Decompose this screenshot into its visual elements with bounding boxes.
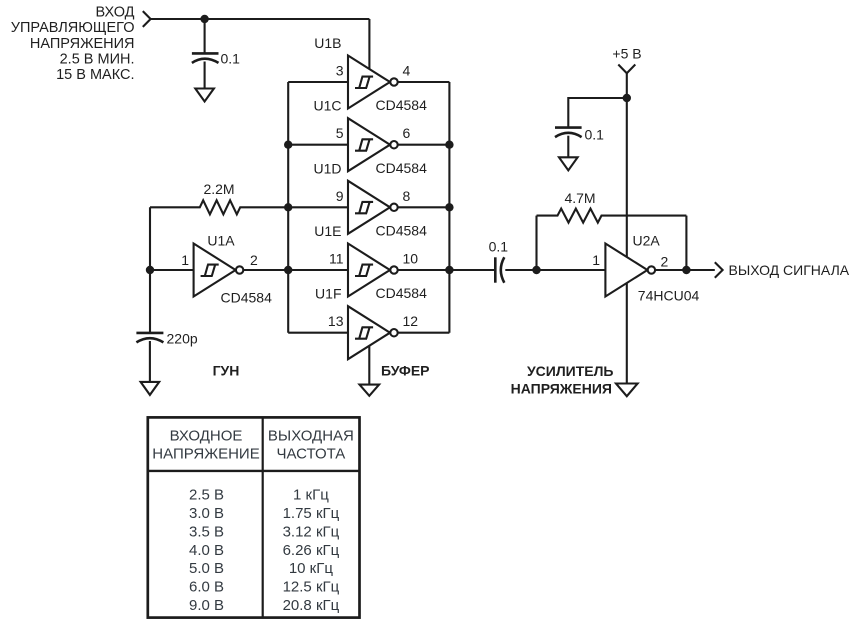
ground (C3) xyxy=(559,157,578,170)
wire: bus to U1E input pin 11 xyxy=(288,269,348,271)
svg-text:U1B: U1B xyxy=(314,35,341,51)
ground (C2) xyxy=(141,382,160,395)
svg-text:U1C: U1C xyxy=(313,98,341,114)
svg-text:0.1: 0.1 xyxy=(489,239,509,255)
ground (C1) xyxy=(195,89,214,102)
svg-text:4: 4 xyxy=(403,63,411,79)
wire: U1B output pin 4 to right bus xyxy=(398,81,449,83)
svg-text:CD4584: CD4584 xyxy=(376,285,428,301)
inverter U1F (CD4584 Schmitt trigger) xyxy=(348,306,398,359)
svg-text:0.1: 0.1 xyxy=(585,127,605,143)
svg-text:УСИЛИТЕЛЬНАПРЯЖЕНИЯ: УСИЛИТЕЛЬНАПРЯЖЕНИЯ xyxy=(511,363,614,397)
svg-text:2.2M: 2.2M xyxy=(203,181,234,197)
wire: feedback right vertical xyxy=(685,216,687,270)
wire: U1A output to U1E input xyxy=(244,269,348,271)
svg-text:ГУН: ГУН xyxy=(213,363,240,379)
wire: +5V rail down to ground xyxy=(626,73,628,383)
svg-text:2.5 В3.0 В3.5 В4.0 В5.0 В6.0 В: 2.5 В3.0 В3.5 В4.0 В5.0 В6.0 В9.0 В xyxy=(189,487,224,614)
wire: down to U1B top edge xyxy=(368,19,370,70)
node: U1A input junction xyxy=(146,266,154,274)
svg-text:12: 12 xyxy=(403,313,419,329)
svg-text:CD4584: CD4584 xyxy=(376,222,428,238)
wire: feedback left vertical xyxy=(535,216,537,270)
wire: left input bus xyxy=(287,82,289,333)
wire: left vertical (U1A input node) xyxy=(149,207,151,332)
output terminal arrow xyxy=(715,262,723,277)
wire: +5V branch to C3 xyxy=(568,98,627,128)
svg-text:2: 2 xyxy=(661,254,669,270)
node: U2A input junction xyxy=(532,266,540,274)
wire: bus to coupling cap C4 xyxy=(449,269,495,271)
ground (U1F / buffer) xyxy=(360,385,380,396)
svg-text:220p: 220p xyxy=(167,331,198,347)
node: left bus U1E row xyxy=(284,266,292,274)
wire: bus to U1F input pin 13 xyxy=(288,332,348,334)
inverter U1B (CD4584 Schmitt trigger) xyxy=(348,56,398,109)
svg-text:9: 9 xyxy=(336,188,344,204)
svg-text:U2A: U2A xyxy=(633,232,661,248)
wire: C2 to ground xyxy=(149,341,151,382)
svg-text:ВЫХОДНАЯЧАСТОТА: ВЫХОДНАЯЧАСТОТА xyxy=(268,428,354,463)
svg-text:11: 11 xyxy=(329,251,344,267)
svg-text:БУФЕР: БУФЕР xyxy=(381,362,430,378)
svg-text:CD4584: CD4584 xyxy=(221,290,273,306)
wire: junction down to C1 xyxy=(204,19,206,53)
+5V supply arrow xyxy=(618,65,635,74)
svg-text:U1D: U1D xyxy=(313,160,341,176)
node: output junction xyxy=(682,266,690,274)
svg-text:0.1: 0.1 xyxy=(221,51,241,67)
ground (U2A) xyxy=(616,384,638,397)
wire: U1C output pin 6 to right bus xyxy=(398,144,449,146)
input terminal arrow (control voltage input) xyxy=(143,11,151,27)
svg-text:6: 6 xyxy=(403,125,411,141)
wire: U1F power stub to ground xyxy=(368,346,370,385)
wire: C4 to U2A input node xyxy=(505,269,605,271)
svg-text:1 кГц1.75 кГц3.12 кГц6.26 кГц1: 1 кГц1.75 кГц3.12 кГц6.26 кГц10 кГц12.5 … xyxy=(283,487,340,614)
wire: input to U1B power branch xyxy=(151,18,370,20)
svg-text:3: 3 xyxy=(336,63,344,79)
wire: bus to U1D input pin 9 xyxy=(288,206,348,208)
node: +5V junction xyxy=(623,94,631,102)
table frame xyxy=(148,417,360,617)
wire: right output bus xyxy=(448,82,450,333)
node: right bus U1C row xyxy=(445,141,453,149)
capacitor C4 0.1 (coupling) xyxy=(494,257,497,282)
svg-text:1: 1 xyxy=(181,252,189,268)
node: left bus U1C row xyxy=(284,141,292,149)
wire: bus to U1B input pin 3 xyxy=(288,81,348,83)
wire: U2A output to output terminal xyxy=(655,269,714,271)
node: right bus U1D row xyxy=(445,203,453,211)
svg-text:4.7M: 4.7M xyxy=(564,190,595,206)
wire: bus to U1C input pin 5 xyxy=(288,144,348,146)
capacitor C2 220p xyxy=(136,332,163,335)
wire: C1 to ground xyxy=(204,62,206,89)
inverter U1D (CD4584 Schmitt trigger) xyxy=(348,181,398,234)
svg-text:13: 13 xyxy=(328,313,344,329)
svg-text:CD4584: CD4584 xyxy=(376,160,428,176)
inverter U1C (CD4584 Schmitt trigger) xyxy=(348,118,398,171)
resistor R1 2.2M xyxy=(150,200,288,214)
resistor R2 4.7M xyxy=(537,209,687,223)
inverter U1E (CD4584 Schmitt trigger) xyxy=(348,244,398,297)
svg-text:U1F: U1F xyxy=(315,286,341,302)
node: left bus U1D row xyxy=(284,203,292,211)
svg-text:8: 8 xyxy=(403,188,411,204)
svg-text:5: 5 xyxy=(336,125,344,141)
svg-text:1: 1 xyxy=(592,252,600,268)
wire: U1E output pin 10 to right bus xyxy=(398,269,449,271)
svg-text:U1A: U1A xyxy=(207,232,235,248)
table header divider xyxy=(148,470,360,472)
svg-text:2: 2 xyxy=(250,252,258,268)
node: right bus U1E row xyxy=(445,266,453,274)
capacitor C3 0.1 (bypass) xyxy=(555,126,582,129)
svg-text:CD4584: CD4584 xyxy=(376,97,428,113)
inverter U1A (CD4584 Schmitt trigger) xyxy=(194,244,244,297)
svg-text:U1E: U1E xyxy=(314,223,341,239)
table column divider xyxy=(262,417,264,617)
wire: U1F output pin 12 to right bus xyxy=(398,332,449,334)
inverter U2A (74HCU04) xyxy=(605,244,655,297)
wire: node to U1A pin 1 xyxy=(150,269,194,271)
svg-text:+5 В: +5 В xyxy=(612,46,641,62)
node: input junction xyxy=(200,15,208,23)
svg-text:10: 10 xyxy=(403,251,419,267)
capacitor C1 0.1 xyxy=(192,52,219,55)
svg-text:74HCU04: 74HCU04 xyxy=(638,287,700,303)
svg-text:ВЫХОД СИГНАЛА: ВЫХОД СИГНАЛА xyxy=(729,262,850,278)
wire: C3 to ground xyxy=(567,136,569,158)
wire: U1D output pin 8 to right bus xyxy=(398,206,449,208)
